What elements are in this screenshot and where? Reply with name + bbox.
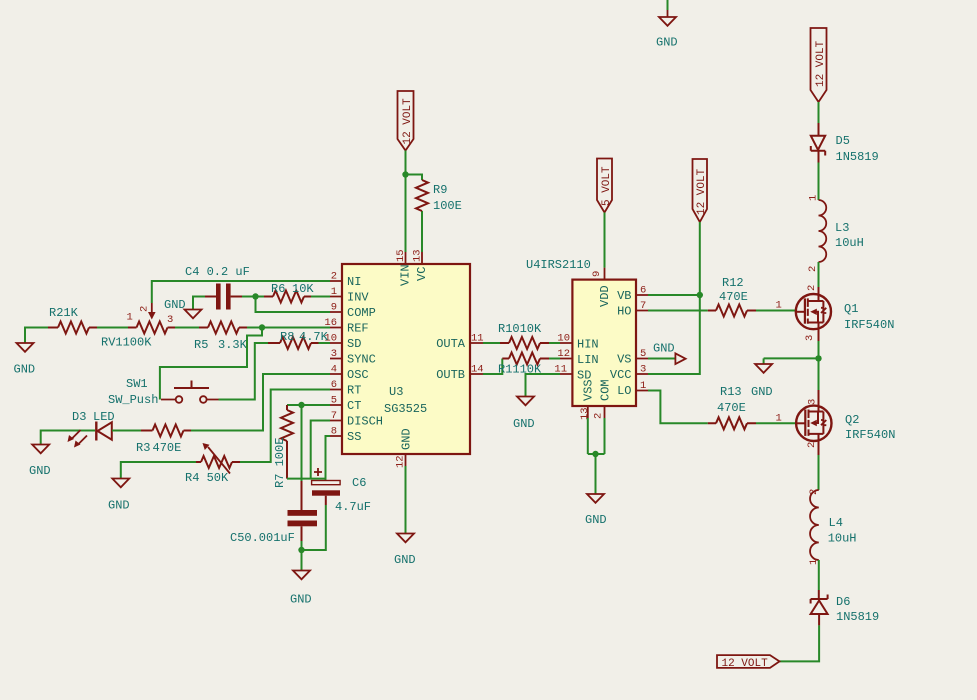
svg-text:13: 13	[579, 407, 591, 420]
wire D6 to bottom flag	[780, 625, 820, 661]
wire SD(U4) to gnd	[526, 374, 561, 397]
wire R4 to RT	[240, 390, 330, 463]
wire U3 GND pin 12	[405, 466, 407, 534]
LED D3	[68, 410, 115, 448]
svg-text:Q1: Q1	[844, 302, 858, 316]
svg-text:GND: GND	[653, 342, 675, 356]
svg-text:10: 10	[557, 333, 570, 345]
resistor R8	[268, 342, 319, 344]
svg-text:R12: R12	[722, 276, 744, 290]
ground (C4 left)	[164, 297, 205, 319]
svg-text:VS: VS	[617, 353, 631, 367]
svg-text:1: 1	[808, 195, 820, 201]
U3 pin stubs top VIN/VC	[406, 252, 423, 264]
svg-text:2: 2	[808, 489, 820, 495]
svg-text:GND: GND	[513, 417, 535, 431]
svg-text:2: 2	[807, 266, 819, 272]
svg-text:C6: C6	[352, 476, 366, 490]
wire REF node to SW1 left (jog)	[160, 328, 262, 400]
potentiometer RV1 wiper arrow	[151, 303, 153, 313]
capacitor C4	[205, 284, 242, 310]
wire R10 to HIN	[549, 342, 560, 344]
junction VB node	[697, 292, 703, 298]
svg-text:SD: SD	[347, 337, 361, 351]
wire D3 to R3	[112, 430, 141, 432]
junction CT node	[298, 402, 304, 408]
wire R7 bottom node	[287, 478, 326, 480]
U3 pin stub bottom GND	[405, 454, 407, 466]
junction REF node	[259, 324, 265, 330]
svg-text:100E: 100E	[433, 199, 462, 213]
potentiometer R4	[185, 443, 240, 485]
wire R8 to SD	[319, 342, 331, 344]
resistor R11	[502, 358, 549, 360]
svg-text:OSC: OSC	[347, 368, 369, 382]
svg-text:R5: R5	[194, 338, 208, 352]
wire C5 to gnd junction	[301, 541, 303, 550]
svg-text:10K: 10K	[292, 282, 314, 296]
svg-text:GND: GND	[394, 553, 416, 567]
wire L3 to Q1	[818, 262, 820, 287]
svg-text:R4 50K: R4 50K	[185, 471, 229, 485]
svg-text:NI: NI	[347, 275, 361, 289]
power flag 5 VOLT	[597, 159, 613, 213]
svg-text:LED: LED	[93, 410, 115, 424]
svg-text:IRF540N: IRF540N	[845, 428, 895, 442]
diode D6	[811, 590, 880, 625]
wire 12V flag to VIN pin 15	[405, 151, 407, 253]
svg-text:5: 5	[640, 348, 646, 360]
U3 pin names	[347, 264, 466, 450]
wire 12V to VB and VCC	[648, 222, 700, 374]
wire R9 branch	[406, 175, 423, 253]
svg-text:GND: GND	[751, 385, 773, 399]
svg-text:VCC: VCC	[610, 368, 632, 382]
U4 pin names	[577, 285, 632, 401]
svg-text:RT: RT	[347, 384, 361, 398]
svg-text:VIN: VIN	[399, 264, 413, 286]
wire L4 to D6	[818, 560, 820, 590]
svg-text:8: 8	[331, 426, 337, 438]
svg-text:L4: L4	[829, 516, 843, 530]
ground (mid node)	[751, 364, 773, 399]
svg-text:IRF540N: IRF540N	[844, 318, 894, 332]
svg-text:3: 3	[640, 364, 646, 376]
svg-text:GND: GND	[164, 298, 186, 312]
wire VS to gnd	[648, 358, 675, 360]
resistor R12	[708, 310, 756, 312]
capacitor C5	[230, 481, 317, 545]
svg-text:4.7K: 4.7K	[299, 330, 329, 344]
svg-text:11: 11	[471, 333, 484, 345]
wire R12 to Q1 gate	[756, 310, 796, 312]
U4 pin stub top	[604, 268, 606, 280]
svg-text:5 VOLT: 5 VOLT	[601, 166, 613, 206]
wire C6 to gnd junction	[302, 505, 326, 550]
power flag 12 VOLT (top, to VIN)	[398, 91, 414, 151]
svg-text:R21K: R21K	[49, 306, 79, 320]
svg-text:VC: VC	[415, 267, 429, 281]
svg-text:SW_Push: SW_Push	[108, 393, 158, 407]
diode D5	[811, 123, 879, 164]
svg-text:C50.001uF: C50.001uF	[230, 531, 295, 545]
junction VSS/COM	[592, 451, 598, 457]
svg-text:13: 13	[412, 249, 424, 262]
svg-text:3: 3	[167, 314, 173, 326]
svg-text:OUTB: OUTB	[436, 368, 465, 382]
svg-text:12 VOLT: 12 VOLT	[402, 98, 414, 145]
svg-text:1: 1	[331, 286, 337, 298]
wire R6 to INV	[311, 296, 330, 298]
svg-text:1: 1	[776, 413, 782, 425]
svg-text:SW1: SW1	[126, 377, 148, 391]
svg-text:SS: SS	[347, 430, 361, 444]
svg-text:HIN: HIN	[577, 338, 599, 352]
ground (U3)	[394, 534, 416, 568]
svg-text:D6: D6	[836, 595, 850, 609]
svg-text:3: 3	[331, 348, 337, 360]
wire RV1 to R5	[175, 327, 199, 329]
svg-text:9: 9	[591, 271, 603, 277]
svg-text:3: 3	[804, 335, 816, 341]
ground (C5/C6)	[290, 550, 312, 607]
wire CT column to C5	[301, 405, 303, 481]
wire R11 to LIN	[549, 358, 560, 360]
svg-text:SYNC: SYNC	[347, 353, 376, 367]
svg-text:4.7uF: 4.7uF	[335, 500, 371, 514]
IC U3 body	[342, 264, 470, 454]
resistor R3	[141, 430, 191, 432]
svg-text:VB: VB	[617, 289, 631, 303]
power flag 12 VOLT (bottom)	[717, 655, 780, 670]
svg-text:VSS: VSS	[582, 379, 596, 401]
svg-text:LO: LO	[617, 384, 631, 398]
svg-text:4: 4	[331, 364, 337, 376]
svg-text:11: 11	[554, 364, 567, 376]
wire mid node to gnd	[764, 358, 819, 364]
junction 12V/R9	[402, 171, 408, 177]
svg-text:COMP: COMP	[347, 306, 376, 320]
svg-text:5: 5	[331, 395, 337, 407]
svg-text:12 VOLT: 12 VOLT	[815, 40, 827, 87]
wire R2 to RV1	[97, 327, 128, 329]
svg-text:2: 2	[331, 271, 337, 283]
svg-text:RV1100K: RV1100K	[101, 336, 152, 350]
svg-text:HO: HO	[617, 305, 631, 319]
svg-text:D3: D3	[72, 410, 86, 424]
wire DISCH net	[311, 421, 330, 479]
ground (R2 left)	[14, 328, 49, 377]
svg-text:CT: CT	[347, 399, 361, 413]
wire HO to R12	[648, 310, 708, 312]
wire NI net to RV1 wiper	[152, 281, 330, 303]
wire 5V to VDD	[604, 213, 606, 268]
svg-text:GND: GND	[108, 499, 130, 513]
IC U4 body	[572, 280, 636, 406]
junction C5/C6 gnd	[298, 547, 304, 553]
svg-text:12 VOLT: 12 VOLT	[722, 658, 769, 670]
inductor L4	[808, 489, 857, 565]
svg-text:2: 2	[806, 442, 818, 448]
power flag 12 VOLT (top right)	[811, 28, 827, 102]
svg-text:9: 9	[331, 302, 337, 314]
resistor R7	[286, 405, 288, 479]
wire mid node to Q2	[818, 358, 820, 390]
ground (R4 left)	[108, 462, 196, 513]
svg-text:LIN: LIN	[577, 353, 599, 367]
wire Q2 to L4	[818, 455, 820, 490]
svg-text:1: 1	[776, 300, 782, 312]
svg-text:R1010K: R1010K	[498, 322, 542, 336]
ground (U4 bottom)	[585, 494, 607, 527]
switch SW1	[108, 377, 219, 407]
svg-text:GND: GND	[14, 363, 36, 377]
svg-text:VDD: VDD	[598, 285, 612, 307]
svg-text:INV: INV	[347, 291, 369, 305]
resistor R10	[500, 342, 549, 344]
svg-text:GND: GND	[656, 36, 678, 50]
svg-text:3.3K: 3.3K	[218, 338, 248, 352]
svg-text:7: 7	[640, 300, 646, 312]
svg-text:R3: R3	[136, 441, 150, 455]
ground (U4 SD)	[513, 397, 535, 432]
svg-text:L3: L3	[835, 221, 849, 235]
U3 pin numbers left	[324, 271, 337, 438]
svg-text:U3: U3	[389, 385, 403, 399]
svg-text:10uH: 10uH	[828, 532, 857, 546]
U4 pin stubs right	[636, 295, 648, 391]
U4 pin stubs left	[560, 343, 572, 374]
svg-text:C4 0.2 uF: C4 0.2 uF	[185, 265, 250, 279]
resistor R13	[708, 422, 756, 424]
ground (top net)	[656, 0, 678, 50]
junction INV node	[252, 293, 258, 299]
resistor R9	[416, 180, 428, 211]
resistor R6	[264, 296, 311, 298]
svg-text:GND: GND	[29, 464, 51, 478]
svg-text:2: 2	[139, 306, 151, 312]
svg-text:R13: R13	[720, 385, 742, 399]
wire Q1 source to mid node	[818, 341, 820, 358]
svg-text:470E: 470E	[719, 290, 748, 304]
svg-text:D5: D5	[836, 134, 850, 148]
svg-text:3: 3	[807, 399, 819, 405]
svg-text:SG3525: SG3525	[384, 402, 427, 416]
svg-text:R7 100E: R7 100E	[273, 438, 287, 488]
capacitor C6	[312, 468, 371, 514]
svg-text:470E: 470E	[717, 401, 746, 415]
transistor Q1	[796, 285, 895, 341]
svg-text:1N5819: 1N5819	[836, 150, 879, 164]
wire OUTA to R10	[483, 342, 500, 344]
svg-text:DISCH: DISCH	[347, 415, 383, 429]
wire OUTB to R11 jog	[483, 359, 502, 375]
svg-text:R9: R9	[433, 183, 447, 197]
svg-text:GND: GND	[290, 593, 312, 607]
svg-text:12: 12	[557, 348, 570, 360]
wire R5 to REF	[247, 327, 330, 329]
ground (VS, right-pointing)	[653, 342, 686, 365]
wire 12V to D5	[818, 102, 820, 123]
wire VSS/COM to gnd	[588, 418, 605, 494]
svg-text:R6: R6	[271, 282, 285, 296]
U4 pin numbers	[554, 333, 570, 376]
U4 pin stubs bottom	[588, 406, 605, 418]
svg-text:6: 6	[640, 285, 646, 297]
inductor L3	[807, 195, 864, 272]
resistor R2	[48, 327, 97, 329]
junction mid node	[815, 355, 821, 361]
svg-text:470E: 470E	[153, 441, 182, 455]
svg-text:2: 2	[593, 413, 605, 419]
svg-text:10uH: 10uH	[835, 236, 864, 250]
svg-text:R8: R8	[280, 330, 294, 344]
potentiometer RV1 body	[128, 327, 175, 329]
svg-text:GND: GND	[400, 428, 414, 450]
svg-text:7: 7	[331, 410, 337, 422]
wire C4 to R6 junction	[242, 296, 264, 298]
wire SS net	[326, 436, 331, 481]
wire D5 to L3	[818, 163, 820, 201]
svg-text:1: 1	[127, 312, 133, 324]
wire SW1 right to R8	[219, 343, 269, 400]
power flag 12 VOLT (U4)	[693, 159, 709, 222]
transistor Q2	[796, 390, 895, 455]
ground (D3 left)	[29, 431, 95, 479]
U3 pin stubs right OUTA/OUTB	[470, 343, 483, 374]
svg-text:6: 6	[331, 379, 337, 391]
svg-text:1: 1	[640, 380, 646, 392]
svg-text:COM: COM	[599, 379, 613, 401]
U3 pin stubs left	[330, 281, 342, 436]
wire R3 to OSC	[191, 374, 330, 431]
svg-text:14: 14	[471, 364, 484, 376]
wire R13 to Q2 gate	[756, 422, 796, 424]
svg-text:GND: GND	[585, 513, 607, 527]
svg-text:U4IRS2110: U4IRS2110	[526, 258, 591, 272]
svg-text:1N5819: 1N5819	[836, 610, 879, 624]
wire INV node to COMP	[256, 297, 331, 313]
wire LO to R13	[648, 391, 708, 424]
svg-text:12 VOLT: 12 VOLT	[696, 168, 708, 215]
svg-text:REF: REF	[347, 322, 369, 336]
svg-text:2: 2	[806, 285, 818, 291]
svg-text:OUTA: OUTA	[436, 337, 466, 351]
svg-text:15: 15	[395, 249, 407, 262]
wire CT net	[287, 404, 330, 406]
svg-text:Q2: Q2	[845, 413, 859, 427]
resistor R5	[199, 327, 247, 329]
